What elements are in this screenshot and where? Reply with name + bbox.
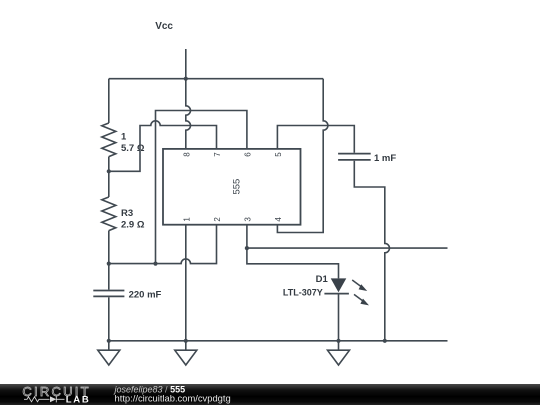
node junction R1-R3 — [107, 169, 111, 173]
svg-text:D1: D1 — [316, 274, 329, 285]
pin number 6 — [243, 152, 252, 157]
svg-text:7: 7 — [213, 152, 222, 157]
label D1 — [283, 274, 329, 297]
resistor R1 — [102, 123, 116, 157]
wire rail left drop to R1 — [108, 79, 110, 123]
diode D1 LED triangle — [331, 278, 347, 292]
wire R3 top lead — [108, 171, 110, 197]
node junction pin3 — [245, 246, 249, 250]
svg-text:R3: R3 — [121, 208, 133, 219]
node junction pin1-ground — [184, 339, 188, 343]
wire C1 top lead — [108, 264, 110, 290]
wire pin 6 to vertical drop at 155.5 — [156, 111, 247, 264]
wire pin 3 down — [246, 225, 248, 248]
ground symbol 3 — [328, 341, 350, 365]
label C2 value — [374, 153, 396, 164]
pin number 3 — [243, 217, 252, 222]
node junction C1-ground — [107, 339, 111, 343]
svg-text:2.9 Ω: 2.9 Ω — [121, 220, 145, 231]
wire bottom ground rail — [109, 340, 448, 342]
wire pin 3 to LED D1 — [247, 248, 339, 278]
wire top rail — [109, 78, 323, 80]
logo zigzag resistor and diode — [24, 396, 65, 402]
svg-text:6: 6 — [243, 152, 252, 157]
pin number 8 — [182, 152, 191, 157]
wire R3 bottom lead — [108, 231, 110, 264]
svg-text:8: 8 — [182, 152, 191, 157]
wire pin 3 output to right — [247, 247, 448, 249]
node junction C2 return — [383, 339, 387, 343]
op-amp U1 555 timer body — [163, 149, 301, 225]
wire Vcc stub — [185, 49, 187, 79]
svg-text:LTL-307Y: LTL-307Y — [283, 288, 323, 298]
pin number 4 — [274, 217, 283, 222]
wire D1 cathode to ground — [338, 294, 340, 341]
wire pin 1 to ground — [185, 225, 187, 341]
wire pin 5 to capacitor C2 — [277, 126, 354, 153]
capacitor C1 220 mF — [93, 291, 124, 297]
resistor R3 — [102, 197, 116, 231]
svg-text:LAB: LAB — [66, 395, 91, 405]
svg-text:2: 2 — [213, 217, 222, 222]
label C1 value — [129, 290, 162, 301]
node junction Vcc rail — [184, 77, 188, 81]
wire R1/R3 junction to pin 7 (hop over vertical at 155.5) — [109, 121, 217, 172]
LED light arrow 1 — [352, 280, 367, 291]
svg-text:1: 1 — [182, 217, 191, 222]
capacitor C2 1 mF — [338, 154, 371, 160]
svg-text:555: 555 — [232, 179, 243, 195]
ground symbol 1 — [98, 341, 120, 365]
diode D1 cathode bar — [324, 293, 349, 295]
footer bar — [0, 384, 540, 405]
node junction threshold drop — [153, 262, 157, 266]
svg-text:http://circuitlab.com/cvpdgtg: http://circuitlab.com/cvpdgtg — [115, 392, 231, 403]
node Vcc label — [155, 21, 173, 32]
svg-text:Vcc: Vcc — [155, 21, 173, 32]
label R1 value — [121, 132, 145, 155]
label U1 555 — [232, 179, 243, 195]
node junction R3-C1 — [107, 262, 111, 266]
pin number 5 — [274, 152, 283, 157]
label R3 — [121, 208, 145, 231]
svg-text:5: 5 — [274, 152, 283, 157]
wire Vcc drop to pin 8 (two hops) — [186, 79, 191, 149]
pin number 7 — [213, 152, 222, 157]
wire R1 bottom lead — [108, 157, 110, 172]
wire C1 bottom lead — [108, 297, 110, 341]
svg-text:1: 1 — [121, 132, 127, 143]
node junction LED-ground — [336, 339, 340, 343]
LED light arrow 2 — [354, 294, 369, 305]
pin number 2 — [213, 217, 222, 222]
svg-text:5.7 Ω: 5.7 Ω — [121, 143, 145, 154]
wire C2 bottom to lower rail (hop at 248.1) — [354, 161, 389, 341]
logo CIRCUIT text — [22, 384, 230, 405]
svg-text:220 mF: 220 mF — [129, 290, 162, 301]
pin number 1 — [182, 217, 191, 222]
ground symbol 2 — [175, 341, 197, 365]
svg-text:1 mF: 1 mF — [374, 153, 396, 164]
svg-text:3: 3 — [243, 217, 252, 222]
wire Vcc rail to pin 4 (hop at 125.5) — [277, 79, 327, 233]
wire bottom trigger wire to pin 2 (hop over pin1 line) — [109, 225, 217, 264]
svg-text:4: 4 — [274, 217, 283, 222]
